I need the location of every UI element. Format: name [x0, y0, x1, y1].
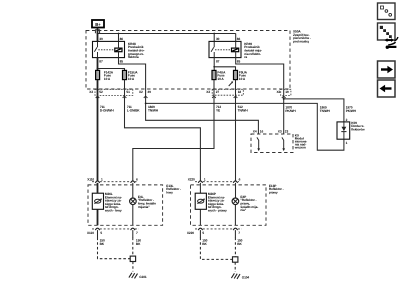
svg-text:mijania": mijania" — [138, 205, 150, 209]
svg-text:10 A: 10 A — [239, 77, 246, 81]
svg-text:pod maską: pod maską — [293, 40, 309, 44]
svg-text:flektora: flektora — [128, 55, 139, 59]
svg-text:X2: X2 — [277, 90, 281, 94]
svg-text:30: 30 — [216, 37, 220, 41]
svg-text:TN/WH: TN/WH — [238, 109, 249, 113]
svg-text:flektorów: flektorów — [351, 127, 365, 131]
svg-text:X110: X110 — [87, 231, 94, 235]
svg-text:lewy: lewy — [166, 191, 173, 195]
svg-text:19: 19 — [285, 90, 289, 94]
svg-text:27: 27 — [216, 90, 220, 94]
svg-text:ra: ra — [244, 55, 247, 59]
svg-text:X220: X220 — [188, 177, 195, 181]
svg-text:30: 30 — [99, 37, 103, 41]
svg-text:10 A: 10 A — [104, 77, 111, 81]
svg-text:10 A: 10 A — [217, 77, 224, 81]
svg-text:X3: X3 — [278, 130, 282, 134]
svg-text:YE: YE — [216, 109, 220, 113]
svg-text:prawy: prawy — [269, 191, 278, 195]
svg-text:49: 49 — [147, 90, 151, 94]
svg-text:wych - lewy: wych - lewy — [104, 209, 122, 213]
svg-text:wych - prawy: wych - prawy — [207, 209, 227, 213]
svg-text:X2: X2 — [89, 90, 93, 94]
svg-text:X4: X4 — [253, 130, 257, 134]
svg-text:87: 87 — [216, 59, 220, 63]
svg-text:86: 86 — [120, 37, 124, 41]
svg-text:nia": nia" — [240, 208, 246, 212]
svg-text:L-GN/BK: L-GN/BK — [127, 109, 140, 113]
svg-text:PK/WH: PK/WH — [285, 109, 296, 113]
svg-text:52: 52 — [99, 90, 103, 94]
svg-text:TN/WH: TN/WH — [320, 109, 331, 113]
svg-text:87: 87 — [99, 59, 103, 63]
svg-text:woziem: woziem — [294, 146, 306, 150]
svg-text:TN/WH: TN/WH — [148, 109, 159, 113]
svg-text:G104: G104 — [242, 276, 250, 280]
svg-text:85: 85 — [120, 59, 124, 63]
svg-text:X2: X2 — [206, 90, 210, 94]
svg-text:18: 18 — [238, 90, 242, 94]
svg-text:51: 51 — [126, 90, 130, 94]
svg-text:23: 23 — [285, 130, 289, 134]
svg-text:X220: X220 — [187, 231, 194, 235]
svg-text:X110: X110 — [87, 177, 94, 181]
svg-text:16: 16 — [260, 130, 264, 134]
svg-text:85: 85 — [237, 59, 241, 63]
svg-text:X2: X2 — [139, 90, 143, 94]
svg-text:G101: G101 — [139, 275, 147, 279]
svg-text:D-GN/WH: D-GN/WH — [100, 109, 114, 113]
svg-text:10 A: 10 A — [128, 77, 135, 81]
svg-text:86: 86 — [237, 37, 241, 41]
svg-text:B+: B+ — [95, 22, 101, 27]
svg-text:PK/WH: PK/WH — [346, 109, 357, 113]
